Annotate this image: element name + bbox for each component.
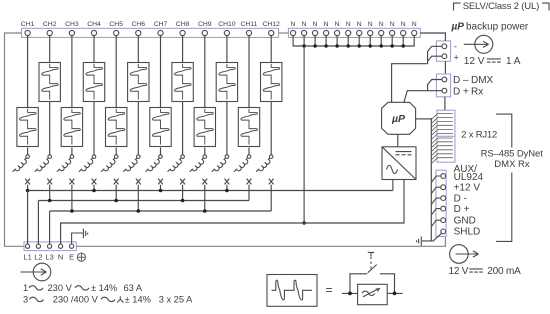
wire fuse CH9 to phase bus (204, 185, 206, 211)
wire E riser to chassis (72, 233, 83, 244)
svg-text:± 14%: ± 14% (125, 294, 151, 304)
wire DMX block to RJ12 (444, 97, 446, 110)
svg-text:=: = (326, 283, 333, 297)
terminal SHLD (441, 229, 446, 234)
terminal D- (442, 75, 494, 86)
wire dimmer D3 to plug contact (71, 148, 73, 156)
wire N strip to backup minus (420, 33, 445, 41)
wire dimmer D12 to plug contact (270, 102, 272, 156)
terminal CH12 (263, 21, 281, 36)
svg-text:CH3: CH3 (65, 21, 79, 28)
terminal strip TB3 (mains L1 L2 L3 N E) (24, 242, 76, 251)
wire left chassis rail (5, 33, 25, 246)
svg-text:D -: D - (454, 193, 467, 204)
terminal N12 (412, 21, 417, 36)
svg-text:CH10: CH10 (218, 21, 236, 28)
terminal N3 (313, 21, 318, 36)
wire bottom earth rail (76, 237, 445, 247)
terminal E (69, 244, 74, 261)
wire SHLD to chassis (422, 233, 442, 241)
wire L1 riser (27, 191, 29, 245)
terminal N1 (291, 21, 296, 36)
wire fuse CH5 to phase bus (115, 185, 117, 201)
terminal CH6 (131, 21, 145, 36)
wire PSU to L1 bus (392, 180, 394, 191)
terminal CH2 (43, 21, 57, 36)
plug contact / disconnect CH10 (212, 155, 229, 174)
terminal strip TB4 (AUX +12V D- D+ GND SHLD) (436, 170, 446, 236)
svg-text:230 /400 V: 230 /400 V (53, 294, 99, 304)
svg-text:1 A: 1 A (506, 56, 521, 67)
svg-text:N: N (335, 21, 340, 28)
wire GND lead (431, 220, 441, 227)
fuse X CH12 (269, 179, 274, 185)
svg-text:CH6: CH6 (131, 21, 145, 28)
svg-text:CH11: CH11 (241, 21, 258, 28)
wire CH5 terminal to dimmer (115, 36, 117, 108)
terminal CH5 (109, 21, 123, 36)
svg-text:2 x RJ12: 2 x RJ12 (461, 130, 497, 141)
terminal CH8 (176, 21, 190, 36)
plug contact / disconnect CH5 (101, 155, 118, 174)
dimmer module D7 (phase-cut waveform box) (150, 108, 171, 147)
microprocessor U1 (382, 102, 416, 134)
svg-text:UL924: UL924 (454, 172, 484, 183)
wire CH10 terminal to dimmer (226, 36, 228, 63)
svg-text:+12 V: +12 V (454, 183, 481, 194)
svg-text:D +: D + (454, 204, 470, 215)
fuse X CH4 (92, 179, 97, 185)
fuse X CH10 (225, 179, 230, 185)
terminal N11 (401, 21, 406, 36)
wire D+ lead (431, 209, 441, 216)
terminal D+ (441, 206, 446, 211)
legend dimmer block (358, 284, 388, 304)
fuse X CH5 (114, 179, 119, 185)
labels right terminal strip (454, 164, 484, 238)
terminal N (58, 244, 63, 261)
terminal GND (441, 218, 446, 223)
wire fuse CH3 to phase bus (71, 185, 73, 211)
svg-text:D –: D – (453, 75, 469, 86)
wire dimmer D10 to plug contact (226, 102, 228, 156)
wire fuse CH10 to phase bus (226, 185, 228, 191)
earth screw symbol (77, 253, 85, 261)
wire CH7 terminal to dimmer (160, 36, 162, 108)
mains supply source symbol (21, 263, 51, 281)
svg-text:12 V: 12 V (464, 56, 485, 67)
SELV/Class 2 bracket left (454, 3, 461, 10)
plug contact / disconnect CH11 (234, 155, 251, 174)
fuse X CH3 (70, 179, 75, 185)
svg-text:N: N (412, 21, 417, 28)
svg-text:N: N (379, 21, 384, 28)
terminal L3 (45, 244, 53, 261)
terminal AUX (441, 174, 446, 179)
plug contact / disconnect CH9 (190, 155, 207, 174)
wire fuse CH1 to phase bus (27, 185, 29, 191)
svg-text:SELV/Class 2 (UL): SELV/Class 2 (UL) (463, 1, 539, 12)
terminal N6 (346, 21, 351, 36)
svg-text:63 A: 63 A (124, 283, 143, 293)
terminal N5 (335, 21, 340, 36)
svg-text:12 V: 12 V (449, 266, 469, 277)
label 12 V dc 1 A (464, 56, 521, 67)
wire neutral bus down-feed (302, 46, 305, 225)
plug contact / disconnect CH6 (123, 155, 140, 174)
SELV/Class 2 bracket right (542, 3, 549, 10)
RS-485 group bracket (496, 114, 512, 241)
terminal backup plus (442, 53, 459, 63)
svg-text:µP: µP (451, 22, 465, 33)
wire N riser and N rail (61, 180, 404, 245)
wire dimmer D9 to plug contact (204, 148, 206, 156)
svg-text:CH9: CH9 (198, 21, 212, 28)
terminal N10 (390, 21, 395, 36)
svg-text:N: N (58, 253, 63, 262)
svg-text:DMX Rx: DMX Rx (494, 159, 530, 170)
dimmer module D10 (phase-cut waveform box) (216, 63, 237, 102)
plug contact / disconnect CH8 (168, 155, 185, 174)
svg-text:N: N (401, 21, 406, 28)
wire CH6 terminal to dimmer (137, 36, 139, 63)
svg-text:backup power: backup power (466, 22, 529, 33)
wire link CH strip to N strip (279, 32, 289, 34)
dimmer module D11 (phase-cut waveform box) (238, 108, 259, 147)
backup power source symbol (464, 35, 493, 53)
plug contact / disconnect CH4 (79, 155, 96, 174)
svg-text:200 mA: 200 mA (487, 266, 521, 277)
wire L2 riser (37, 201, 39, 245)
svg-text:CH2: CH2 (43, 21, 57, 28)
dimmer module D9 (phase-cut waveform box) (194, 108, 215, 147)
wire backup blocks link (444, 61, 446, 74)
wire CH8 terminal to dimmer (182, 36, 184, 63)
svg-text:N: N (357, 21, 362, 28)
svg-text:N: N (324, 21, 329, 28)
terminal CH4 (87, 21, 101, 36)
fuse X CH6 (136, 179, 141, 185)
terminal backup minus (442, 42, 457, 52)
wire uP to RJ12 trunk (416, 118, 432, 120)
terminal block backup power (- +) (436, 41, 450, 61)
svg-text:+: + (454, 53, 459, 63)
dimmer module D8 (phase-cut waveform box) (172, 63, 193, 102)
svg-text:1: 1 (23, 283, 28, 293)
label 2 x RJ12 (461, 130, 497, 141)
terminal CH10 (218, 21, 236, 36)
label uP backup power (451, 22, 529, 33)
fuse X CH2 (47, 179, 52, 185)
chassis ground (earth E) (83, 229, 87, 239)
plug contact / disconnect CH3 (57, 155, 74, 174)
dimmer module D4 (phase-cut waveform box) (83, 63, 104, 102)
wire dimmer D1 to plug contact (27, 148, 29, 156)
dimmer module D6 (phase-cut waveform box) (128, 63, 149, 102)
wire fuse CH8 to phase bus (182, 185, 184, 201)
wire dimmer D6 to plug contact (137, 102, 139, 156)
terminal N8 (368, 21, 373, 36)
wire dimmer D5 to plug contact (115, 148, 117, 156)
wire dimmer D2 to plug contact (49, 102, 51, 156)
terminal +12V (441, 185, 446, 190)
label 3~ 230/400V wye +-14% 3x25A (23, 294, 193, 304)
terminal CH1 (21, 21, 35, 36)
terminal N9 (379, 21, 384, 36)
terminal CH7 (154, 21, 168, 36)
svg-text:N: N (346, 21, 351, 28)
svg-text:L1: L1 (23, 253, 31, 262)
fuse X CH7 (158, 179, 163, 185)
svg-text:CH8: CH8 (176, 21, 190, 28)
wire dimmer D11 to plug contact (248, 148, 250, 156)
svg-text:CH5: CH5 (109, 21, 123, 28)
wire fuse CH6 to phase bus (137, 185, 139, 211)
wire fuse CH2 to phase bus (49, 185, 51, 201)
wire CH4 terminal to dimmer (93, 36, 95, 63)
terminal CH3 (65, 21, 79, 36)
terminal strip TB1 (dimmer outputs CH1-CH12) (22, 28, 279, 37)
plug contact / disconnect CH1 (13, 155, 30, 174)
wire AUX lead (431, 176, 441, 183)
wire CH3 terminal to dimmer (71, 36, 73, 108)
wire CH2 terminal to dimmer (49, 36, 51, 63)
label equals (326, 283, 333, 297)
fuse X CH1 (25, 179, 30, 185)
terminal CH11 (241, 21, 258, 36)
wire CH9 terminal to dimmer (204, 36, 206, 108)
phase bus L2 (38, 199, 249, 203)
wire dimmer D7 to plug contact (160, 148, 162, 156)
12V output source symbol (450, 245, 479, 264)
terminal block DMX (D- D+) (436, 74, 450, 97)
ac/dc power supply U2 (382, 147, 416, 180)
svg-text:N: N (291, 21, 296, 28)
terminal L2 (34, 244, 42, 261)
terminal N7 (357, 21, 362, 36)
wire CH1 terminal to dimmer (27, 36, 29, 108)
svg-text:L2: L2 (34, 253, 42, 262)
svg-text:Rx: Rx (471, 87, 483, 98)
dimmer module D1 (phase-cut waveform box) (17, 108, 38, 147)
label DMX Rx (494, 159, 530, 170)
terminal N4 (324, 21, 329, 36)
svg-text:230 V: 230 V (48, 283, 73, 293)
svg-text:CH1: CH1 (21, 21, 35, 28)
label RS-485 DyNet (481, 148, 544, 159)
svg-text:N: N (302, 21, 307, 28)
svg-text:RS–485 DyNet: RS–485 DyNet (481, 148, 544, 159)
terminal D- (441, 196, 446, 201)
wire dimmer D8 to plug contact (182, 102, 184, 156)
connector 2 x RJ12 (431, 110, 455, 164)
dimmer module D3 (phase-cut waveform box) (61, 108, 82, 147)
wire +12V lead (431, 187, 441, 194)
svg-text:CH12: CH12 (263, 21, 281, 28)
svg-text:L3: L3 (45, 253, 53, 262)
neutral busbar (293, 36, 414, 48)
wire uP to PSU (397, 135, 399, 147)
svg-text:-: - (454, 42, 457, 52)
terminal N2 (302, 21, 307, 36)
wire fuse CH12 to phase bus (270, 185, 272, 211)
wire backup block to uP (392, 46, 442, 102)
dimmer module D2 (phase-cut waveform box) (39, 63, 60, 102)
fuse X CH9 (202, 179, 207, 185)
svg-text:µP: µP (391, 113, 406, 125)
legend waveform box (267, 275, 317, 307)
svg-text:± 14%: ± 14% (91, 283, 117, 293)
wire dimmer D4 to plug contact (93, 102, 95, 156)
plug contact / disconnect CH12 (256, 155, 273, 174)
dimmer module D12 (phase-cut waveform box) (261, 63, 282, 102)
svg-text:3 x 25 A: 3 x 25 A (159, 294, 193, 304)
svg-text:N: N (368, 21, 373, 28)
plug contact / disconnect CH2 (35, 155, 52, 174)
svg-text:D +: D + (453, 87, 469, 98)
fuse X CH8 (180, 179, 185, 185)
chassis ground (SHLD) (417, 236, 422, 245)
phase bus L1 (26, 189, 393, 193)
svg-text:E: E (69, 253, 74, 262)
svg-text:DMX: DMX (471, 75, 494, 86)
legend bypass relay contact (342, 252, 403, 295)
wire fuse CH7 to phase bus (160, 185, 162, 191)
label 1~ 230V +-14% 63A (23, 283, 143, 293)
terminal strip TB2 (neutral N x12) (288, 28, 420, 37)
wire D- lead (431, 198, 441, 205)
fuse X CH11 (247, 179, 252, 185)
wire fuse CH11 to phase bus (248, 185, 250, 201)
phase bus L3 (50, 209, 272, 213)
terminal L1 (23, 244, 31, 261)
wire L3 riser (49, 211, 51, 244)
svg-text:CH7: CH7 (154, 21, 168, 28)
svg-text:N: N (390, 21, 395, 28)
terminal D+ (442, 87, 483, 98)
plug contact / disconnect CH7 (145, 155, 162, 174)
wire fuse CH4 to phase bus (93, 185, 95, 191)
wire DMX block to uP (404, 80, 442, 103)
svg-text:GND: GND (454, 215, 476, 226)
label 12 V dc 200 mA (449, 266, 522, 277)
terminal CH9 (198, 21, 212, 36)
dimmer module D5 (phase-cut waveform box) (106, 108, 127, 147)
svg-text:N: N (313, 21, 318, 28)
label SELV/Class 2 (UL) (463, 1, 539, 12)
svg-text:3: 3 (23, 294, 28, 304)
svg-text:SHLD: SHLD (454, 227, 481, 238)
svg-text:CH4: CH4 (87, 21, 101, 28)
wire CH11 terminal to dimmer (248, 36, 250, 108)
wire CH12 terminal to dimmer (270, 36, 272, 63)
wire comms trunk (430, 118, 432, 241)
